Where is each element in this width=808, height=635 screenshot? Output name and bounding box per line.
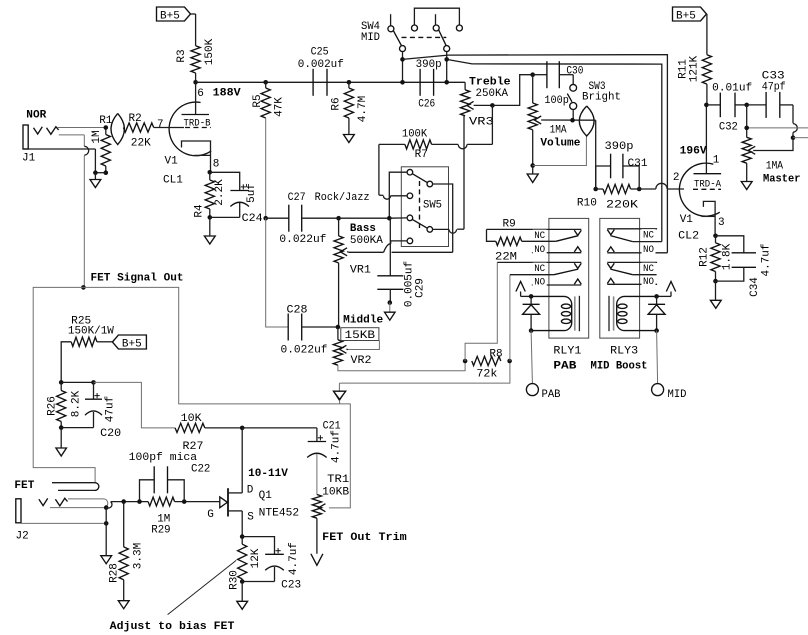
wire gate	[111, 501, 148, 503]
label Middle	[343, 314, 383, 326]
cable marker	[111, 113, 124, 144]
wire grid V1B	[639, 183, 684, 189]
capacitor C34	[716, 236, 773, 297]
svg-text:B+5: B+5	[676, 11, 696, 23]
svg-text:15KB: 15KB	[345, 330, 376, 342]
svg-text:500KA: 500KA	[350, 235, 383, 247]
wire master wiper	[753, 138, 793, 151]
node R26 bottom	[59, 425, 64, 430]
wire	[97, 341, 113, 343]
svg-text:R8: R8	[489, 348, 502, 360]
label G	[207, 509, 214, 521]
svg-text:47K: 47K	[274, 97, 286, 117]
tube V1B grid dash	[693, 188, 721, 190]
relay RLY3 coil	[609, 296, 657, 331]
arrow down TR1	[311, 554, 323, 566]
resistor R5	[252, 82, 286, 118]
node R11 bottom	[704, 103, 709, 108]
label J2	[16, 531, 29, 543]
label J1	[22, 153, 36, 165]
svg-text:S: S	[247, 512, 254, 524]
wire C20 to R27	[94, 382, 176, 428]
wire J2 tip	[50, 507, 106, 509]
wire	[241, 582, 243, 602]
relay RLY1 NC1	[487, 229, 582, 242]
svg-text:TRD-A: TRD-A	[694, 180, 721, 191]
wire to edge upper	[747, 127, 808, 129]
wire	[195, 73, 197, 82]
svg-text:5uf: 5uf	[246, 183, 258, 203]
svg-text:121K: 121K	[688, 55, 700, 82]
switch SW4 pole2	[433, 14, 450, 51]
svg-text:SW5: SW5	[423, 200, 442, 212]
capacitor C26	[416, 59, 442, 110]
resistor R27	[175, 413, 205, 453]
resistor R11	[677, 55, 711, 84]
wire VR1 wiper	[347, 241, 453, 252]
ground	[527, 174, 538, 183]
resistor R9	[487, 218, 522, 263]
capacitor C25	[298, 47, 344, 96]
capacitor C27	[279, 192, 369, 246]
diode RLY1	[523, 296, 540, 330]
wire VR1 bottom	[338, 263, 340, 327]
wire VR3 to SW5 rc2	[433, 229, 464, 233]
node R6 top	[347, 80, 352, 85]
svg-text:C22: C22	[191, 463, 210, 475]
svg-text:R26: R26	[46, 396, 58, 416]
ground	[90, 180, 101, 188]
svg-text:B+5: B+5	[122, 339, 142, 351]
ground	[56, 448, 66, 456]
svg-text:G: G	[207, 509, 214, 521]
pot Master 1MA	[742, 137, 800, 185]
node master top	[744, 126, 749, 131]
label 188V	[197, 87, 241, 100]
node R12 bottom	[713, 279, 718, 284]
jack J1 body	[23, 125, 28, 149]
node VR2 top	[336, 325, 341, 330]
svg-text:1.8K: 1.8K	[721, 243, 733, 270]
node C32 right	[744, 103, 749, 108]
wire	[302, 217, 339, 219]
svg-text:R27: R27	[183, 441, 204, 453]
relay RLY3 blade1	[610, 236, 661, 242]
svg-text:3.3M: 3.3M	[132, 543, 144, 569]
jack J2 tip finger	[68, 499, 108, 507]
svg-text:NO: NO	[534, 245, 545, 256]
svg-text:10-11V: 10-11V	[248, 468, 288, 480]
svg-text:196V: 196V	[680, 145, 707, 157]
svg-text:47uf: 47uf	[104, 396, 116, 422]
node R1 top	[104, 125, 109, 130]
wire	[746, 105, 748, 137]
power flag B+5 (left)	[157, 7, 196, 23]
svg-text:C29: C29	[414, 278, 426, 298]
svg-text:100K: 100K	[402, 128, 428, 140]
svg-text:FET Signal Out: FET Signal Out	[91, 273, 184, 285]
tube V1B cathode	[702, 201, 716, 235]
svg-text:2.2K: 2.2K	[214, 179, 226, 206]
wire R8 right up	[509, 275, 511, 361]
svg-text:Master: Master	[763, 173, 801, 185]
switch SW5 blade1	[412, 174, 427, 183]
label V1b	[680, 214, 694, 226]
ground above wire	[334, 391, 346, 404]
label D	[247, 484, 254, 496]
svg-text:C32: C32	[719, 122, 738, 134]
svg-text:390p: 390p	[605, 141, 634, 153]
capacitor C21	[307, 420, 342, 463]
arrow coil supply RLY1	[516, 282, 531, 297]
label CL2	[678, 230, 699, 242]
wire C28 feed	[266, 218, 289, 327]
ground	[741, 182, 752, 190]
svg-text:0.01uf: 0.01uf	[712, 83, 752, 95]
svg-text:V1: V1	[680, 214, 694, 226]
node J2 tip	[104, 505, 109, 510]
transistor Q1	[220, 488, 242, 516]
node volume bottom	[530, 163, 535, 168]
arrow coil supply RLY3	[657, 282, 676, 297]
svg-text:R9: R9	[503, 218, 516, 230]
switch SW5 blade2	[412, 219, 427, 228]
svg-text:NOR: NOR	[26, 109, 46, 121]
wire SW5 c3	[389, 217, 407, 219]
label pin1	[713, 155, 720, 167]
capacitor C31	[596, 141, 648, 189]
svg-text:4.7uf: 4.7uf	[331, 430, 343, 463]
relay RLY1 NC3	[497, 262, 581, 275]
label pin3	[718, 217, 725, 229]
wire	[266, 217, 289, 219]
wire PAB drop	[531, 331, 532, 384]
node C29 gnd	[388, 300, 393, 305]
node VR3 wiper	[490, 103, 495, 108]
wire VR2 wiper	[346, 341, 379, 350]
label Q1	[259, 490, 273, 502]
relay RLY1 NO4	[532, 276, 582, 288]
node C20 top	[91, 380, 96, 385]
svg-text:PAB: PAB	[553, 361, 576, 373]
svg-text:C28: C28	[287, 304, 308, 316]
svg-text:Rock/Jazz: Rock/Jazz	[315, 192, 370, 204]
wire	[209, 217, 211, 236]
wire J2 sleeve	[21, 522, 106, 524]
svg-text:R6: R6	[331, 97, 343, 110]
label pin8	[213, 159, 220, 171]
svg-text:R10: R10	[577, 198, 597, 210]
pot Volume 1MA	[528, 75, 581, 166]
wire	[706, 84, 708, 105]
svg-text:FET Out Trim: FET Out Trim	[322, 532, 407, 544]
wire	[706, 14, 708, 55]
power flag B+5 (fet)	[112, 335, 146, 351]
svg-text:72k: 72k	[476, 369, 497, 381]
wire FET signal left	[33, 287, 95, 482]
node SW5 feed	[387, 216, 392, 221]
svg-text:C31: C31	[628, 158, 648, 170]
tube V1B label TRD-A	[694, 180, 721, 191]
wire	[94, 173, 96, 180]
wire	[242, 427, 317, 429]
wire	[302, 326, 338, 328]
label FET Signal Out	[91, 273, 184, 285]
svg-text:NC: NC	[534, 264, 545, 275]
svg-text:0.002uf: 0.002uf	[298, 59, 344, 71]
switch SW5 box	[401, 167, 448, 247]
relay RLY1 blade1	[522, 236, 579, 242]
svg-text:4.7M: 4.7M	[357, 96, 369, 122]
svg-text:1M: 1M	[157, 513, 170, 525]
relay RLY1 blade2	[510, 269, 578, 275]
svg-text:22K: 22K	[131, 138, 151, 150]
jack J2 contacts	[39, 498, 68, 506]
resistor R30	[229, 537, 262, 590]
wire SW5 rc1 down	[433, 184, 453, 252]
jack J2 switch finger	[52, 483, 99, 491]
jack J2 body	[16, 499, 21, 523]
ground	[344, 135, 355, 143]
wire J2 to gnd	[105, 508, 107, 556]
svg-text:390p: 390p	[416, 59, 442, 71]
svg-text:Q1: Q1	[259, 490, 273, 502]
node gate 1	[121, 499, 126, 504]
svg-text:MID: MID	[361, 32, 380, 44]
node R1 bottom	[104, 170, 109, 175]
svg-text:47pf: 47pf	[762, 82, 786, 94]
ground	[204, 236, 215, 244]
svg-text:C30: C30	[566, 66, 583, 78]
label PAB MID Boost	[553, 361, 647, 373]
wire J1 tip	[57, 127, 106, 129]
node RLY3 coil bottom	[654, 328, 659, 333]
wire	[205, 427, 242, 429]
wire R25 left down	[61, 342, 71, 383]
diode RLY3	[648, 296, 665, 330]
svg-text:0.022uf: 0.022uf	[281, 345, 328, 357]
wire SW4 pole2 down	[446, 52, 448, 83]
ground middle net	[334, 392, 345, 400]
svg-text:0.022uf: 0.022uf	[279, 234, 326, 246]
terminal MID	[652, 384, 687, 401]
capacitor C23	[242, 537, 301, 592]
resistor R7	[402, 128, 432, 161]
svg-text:MID: MID	[668, 389, 687, 401]
svg-text:R30: R30	[229, 570, 241, 590]
switch SW4 NC bracket	[412, 8, 463, 31]
pot VR3 Treble	[461, 76, 512, 128]
wire to edge lower	[793, 137, 808, 139]
wire VR3 bottom	[463, 116, 465, 229]
relay RLY3 NO2	[607, 244, 667, 256]
wire gnd to R8	[339, 361, 510, 392]
resistor R28	[109, 502, 145, 601]
svg-text:Bright: Bright	[582, 92, 621, 104]
svg-text:NO: NO	[643, 245, 654, 256]
svg-text:C26: C26	[418, 98, 435, 110]
wire volume wiper	[541, 119, 596, 121]
wire wiper down to R10	[595, 120, 597, 189]
svg-text:150K/1W: 150K/1W	[68, 326, 114, 338]
svg-text:1M: 1M	[91, 130, 103, 143]
label CL1	[163, 175, 183, 187]
capacitor C30	[533, 61, 584, 107]
wire	[195, 14, 197, 46]
node R10 left	[593, 187, 598, 192]
label NTE452	[259, 508, 300, 520]
label FET input	[14, 480, 34, 492]
wire	[715, 281, 717, 300]
svg-text:100p: 100p	[544, 95, 569, 107]
svg-text:R2: R2	[129, 113, 142, 125]
svg-text:NO: NO	[643, 277, 654, 288]
pot VR1 Bass	[334, 218, 383, 276]
resistor R25	[68, 315, 114, 346]
wire J1 switch to FET	[59, 135, 89, 288]
wire R7 left	[379, 144, 405, 195]
wire	[596, 188, 640, 190]
wire	[389, 303, 391, 313]
relay RLY3 blade2	[610, 269, 656, 275]
switch SW4 labels	[361, 21, 380, 44]
svg-text:VR1: VR1	[350, 264, 371, 276]
tube V1 CL2 envelope	[679, 163, 719, 216]
resistor R6	[331, 82, 369, 134]
svg-text:J2: J2	[16, 531, 29, 543]
svg-text:10KB: 10KB	[322, 486, 349, 498]
capacitor C29	[377, 218, 426, 307]
node Q1 source net	[240, 534, 245, 539]
ground	[237, 601, 248, 609]
node R8 left	[463, 359, 468, 364]
wire bus 188V	[196, 81, 466, 83]
svg-text:FET: FET	[14, 480, 34, 492]
svg-text:B+5: B+5	[160, 11, 180, 23]
wire	[316, 454, 318, 495]
relay RLY3 NO4	[607, 276, 657, 288]
svg-text:1: 1	[713, 155, 720, 167]
tube V1 plate	[182, 82, 210, 114]
node C27 junction	[263, 216, 268, 221]
wire SW4 to relay MID lower	[447, 59, 662, 241]
svg-text:C24: C24	[242, 213, 263, 225]
switch SW5 contacts left	[407, 169, 413, 243]
wire volume bottom to cable	[533, 136, 587, 166]
resistor R3	[176, 38, 216, 73]
switch SW3 Bright	[559, 75, 621, 121]
ground	[385, 312, 396, 320]
tube V1 label TRD-B	[184, 118, 211, 129]
svg-text:NTE452: NTE452	[259, 508, 300, 520]
svg-text:150K: 150K	[204, 38, 216, 65]
svg-text:Middle: Middle	[343, 314, 383, 326]
svg-text:R7: R7	[415, 149, 428, 161]
svg-text:12K: 12K	[250, 548, 262, 568]
relay RLY1 NO2	[532, 244, 581, 256]
node SW4 pole1	[400, 57, 405, 62]
svg-text:220K: 220K	[606, 200, 638, 212]
box 15KB	[341, 328, 379, 342]
node RLY3 coil top	[654, 294, 659, 299]
wire R8 left up	[465, 262, 497, 361]
svg-text:VR3: VR3	[469, 117, 494, 129]
node FET signal out	[81, 285, 86, 290]
svg-text:Bass: Bass	[350, 223, 376, 235]
resistor R4	[193, 172, 226, 217]
wire FET signal right	[83, 287, 339, 404]
svg-text:NC: NC	[643, 230, 654, 241]
svg-text:8.2K: 8.2K	[71, 390, 83, 417]
wire	[95, 172, 105, 174]
capacitor C24	[210, 172, 263, 225]
node gate 2	[137, 499, 142, 504]
wire R7 to SW5 c2	[379, 195, 407, 199]
label RLY1	[553, 346, 581, 358]
node R26 top	[59, 380, 64, 385]
node VR1 top	[336, 216, 341, 221]
relay RLY3 box	[600, 218, 640, 338]
node J2 sleeve	[104, 521, 109, 526]
capacitor C33	[747, 71, 793, 118]
wire J1 sleeve	[23, 149, 95, 173]
wire C33 right down	[793, 105, 797, 138]
switch SW5 coupler	[419, 181, 421, 228]
svg-text:C25: C25	[311, 47, 329, 59]
svg-text:NO: NO	[534, 277, 545, 288]
svg-text:Volume: Volume	[540, 138, 580, 150]
svg-text:RLY1: RLY1	[553, 346, 581, 358]
label NOR	[26, 109, 46, 121]
trimmer TR1	[312, 474, 349, 518]
svg-text:4.7uf: 4.7uf	[761, 243, 773, 276]
wire	[339, 217, 390, 219]
label FET Out Trim	[322, 532, 407, 544]
relay RLY1 box	[549, 218, 589, 338]
svg-text:4.7uf: 4.7uf	[288, 542, 300, 575]
svg-text:C20: C20	[100, 428, 121, 440]
capacitor C28	[281, 304, 328, 356]
node SW4 pole2	[444, 57, 449, 62]
svg-text:188V: 188V	[213, 87, 241, 99]
svg-text:6: 6	[197, 88, 204, 100]
svg-text:100pf mica: 100pf mica	[129, 452, 198, 464]
resistor R8	[472, 348, 503, 380]
node RLY1 coil top	[529, 294, 534, 299]
node Q1 drain net	[240, 426, 245, 431]
wire R7 right	[432, 105, 493, 148]
svg-text:250KA: 250KA	[476, 88, 509, 100]
relay RLY3 NC3	[607, 262, 657, 275]
svg-text:2: 2	[673, 172, 680, 184]
label S	[247, 512, 254, 524]
label pin2	[673, 172, 680, 184]
svg-text:RLY3: RLY3	[610, 346, 638, 358]
tube V1B plate	[694, 105, 722, 174]
node cathode V1A	[208, 170, 213, 175]
node R4 bottom	[208, 215, 213, 220]
wire	[532, 166, 534, 175]
node RLY1 coil bottom	[529, 328, 534, 333]
node R10 right	[637, 187, 642, 192]
node gnd J1	[93, 170, 98, 175]
svg-text:R28: R28	[109, 563, 121, 583]
svg-text:CL1: CL1	[163, 175, 183, 187]
node cathode V1B	[713, 234, 718, 239]
wire FET signal to trim	[329, 404, 350, 508]
svg-text:Adjust to bias FET: Adjust to bias FET	[110, 621, 235, 633]
leader line	[168, 560, 237, 614]
